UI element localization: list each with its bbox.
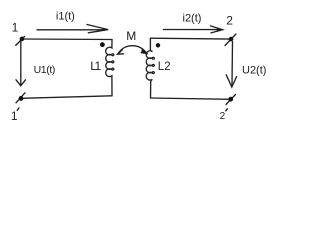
svg-text:2: 2 [220, 111, 226, 122]
svg-text:1: 1 [11, 109, 18, 123]
svg-text:U1(t): U1(t) [34, 64, 55, 76]
svg-text:1: 1 [12, 21, 19, 35]
svg-text:U2(t): U2(t) [242, 64, 266, 76]
svg-text:L1: L1 [90, 59, 101, 73]
svg-text:i1(t): i1(t) [56, 11, 75, 23]
svg-text:M: M [126, 29, 136, 43]
svg-text:2: 2 [226, 13, 233, 27]
svg-text:L2: L2 [158, 61, 171, 73]
svg-text:i2(t): i2(t) [183, 13, 202, 25]
